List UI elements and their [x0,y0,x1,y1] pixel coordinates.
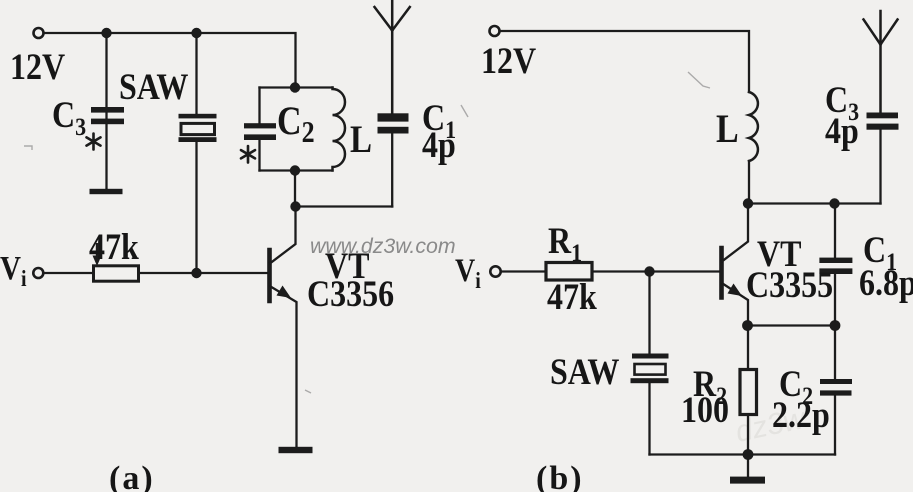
svg-text:4p: 4p [422,124,456,166]
svg-text:47k: 47k [547,276,597,318]
svg-text:SAW: SAW [550,351,620,393]
svg-text:2.2p: 2.2p [772,394,830,436]
svg-text:100: 100 [681,389,729,431]
svg-text:C3356: C3356 [307,273,394,315]
svg-text:(a): (a) [109,460,155,492]
svg-text:47k: 47k [89,226,139,268]
svg-text:(b): (b) [536,460,584,492]
svg-text:6.8p: 6.8p [859,262,913,304]
svg-text:SAW: SAW [119,66,189,108]
svg-text:12V: 12V [10,46,65,88]
svg-text:4p: 4p [825,110,859,152]
svg-text:www.dz3w.com: www.dz3w.com [310,234,456,258]
svg-text:L: L [350,118,372,161]
svg-text:L: L [716,108,739,152]
svg-text:C3355: C3355 [746,264,833,306]
svg-text:12V: 12V [481,40,536,82]
